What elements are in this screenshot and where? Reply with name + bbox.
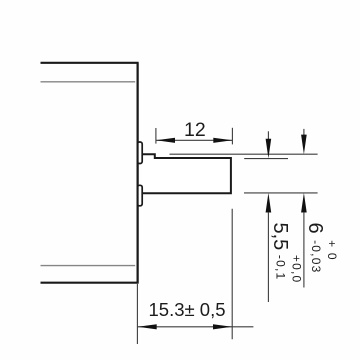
body inner thin line bottom [41, 265, 136, 267]
dim 6 upper tail [303, 129, 305, 136]
dim 12 arrow right [213, 138, 232, 143]
flange tab upper [137, 142, 142, 164]
dim 15.3 extension line right [231, 209, 233, 339]
flange tab lower [137, 185, 142, 206]
dim 12 arrow left [156, 138, 175, 143]
dim 6 lower line [303, 212, 305, 288]
extension line shaft bottom right [244, 192, 318, 194]
svg-text:6: 6 [304, 223, 326, 234]
dim 15.3 line [138, 326, 254, 328]
dim 12 extension line left [155, 128, 157, 144]
extension line shaft full top to right [170, 153, 318, 155]
dim 15.3 extension line left [136, 284, 138, 344]
body inner thin line top [41, 81, 136, 83]
svg-text:5,5: 5,5 [269, 223, 291, 251]
dim 15.3 arrow right [213, 324, 232, 329]
extension line shaft flat top right [244, 158, 288, 160]
dim 6 upper arrow (down) [301, 135, 307, 155]
svg-text:+ 0-0,03: + 0-0,03 [309, 240, 339, 273]
motor body outline [41, 63, 138, 283]
dim 5,5 upper arrow (down) [266, 139, 272, 159]
dim 5,5 upper tail [267, 131, 269, 139]
body right edge over tabs [137, 63, 139, 283]
svg-text:+0,0-0,1: +0,0-0,1 [274, 255, 304, 284]
svg-text:15.3± 0,5: 15.3± 0,5 [149, 299, 226, 320]
dim 12 line [156, 139, 232, 141]
svg-text:12: 12 [184, 119, 206, 141]
dim 12 extension line right [231, 128, 233, 145]
dim 6 lower arrow (up) [301, 193, 307, 213]
shaft [142, 154, 231, 193]
dim 5,5 lower line [267, 212, 269, 302]
dim 5,5 lower arrow (up) [266, 193, 272, 213]
dim 15.3 arrow left [138, 324, 157, 329]
